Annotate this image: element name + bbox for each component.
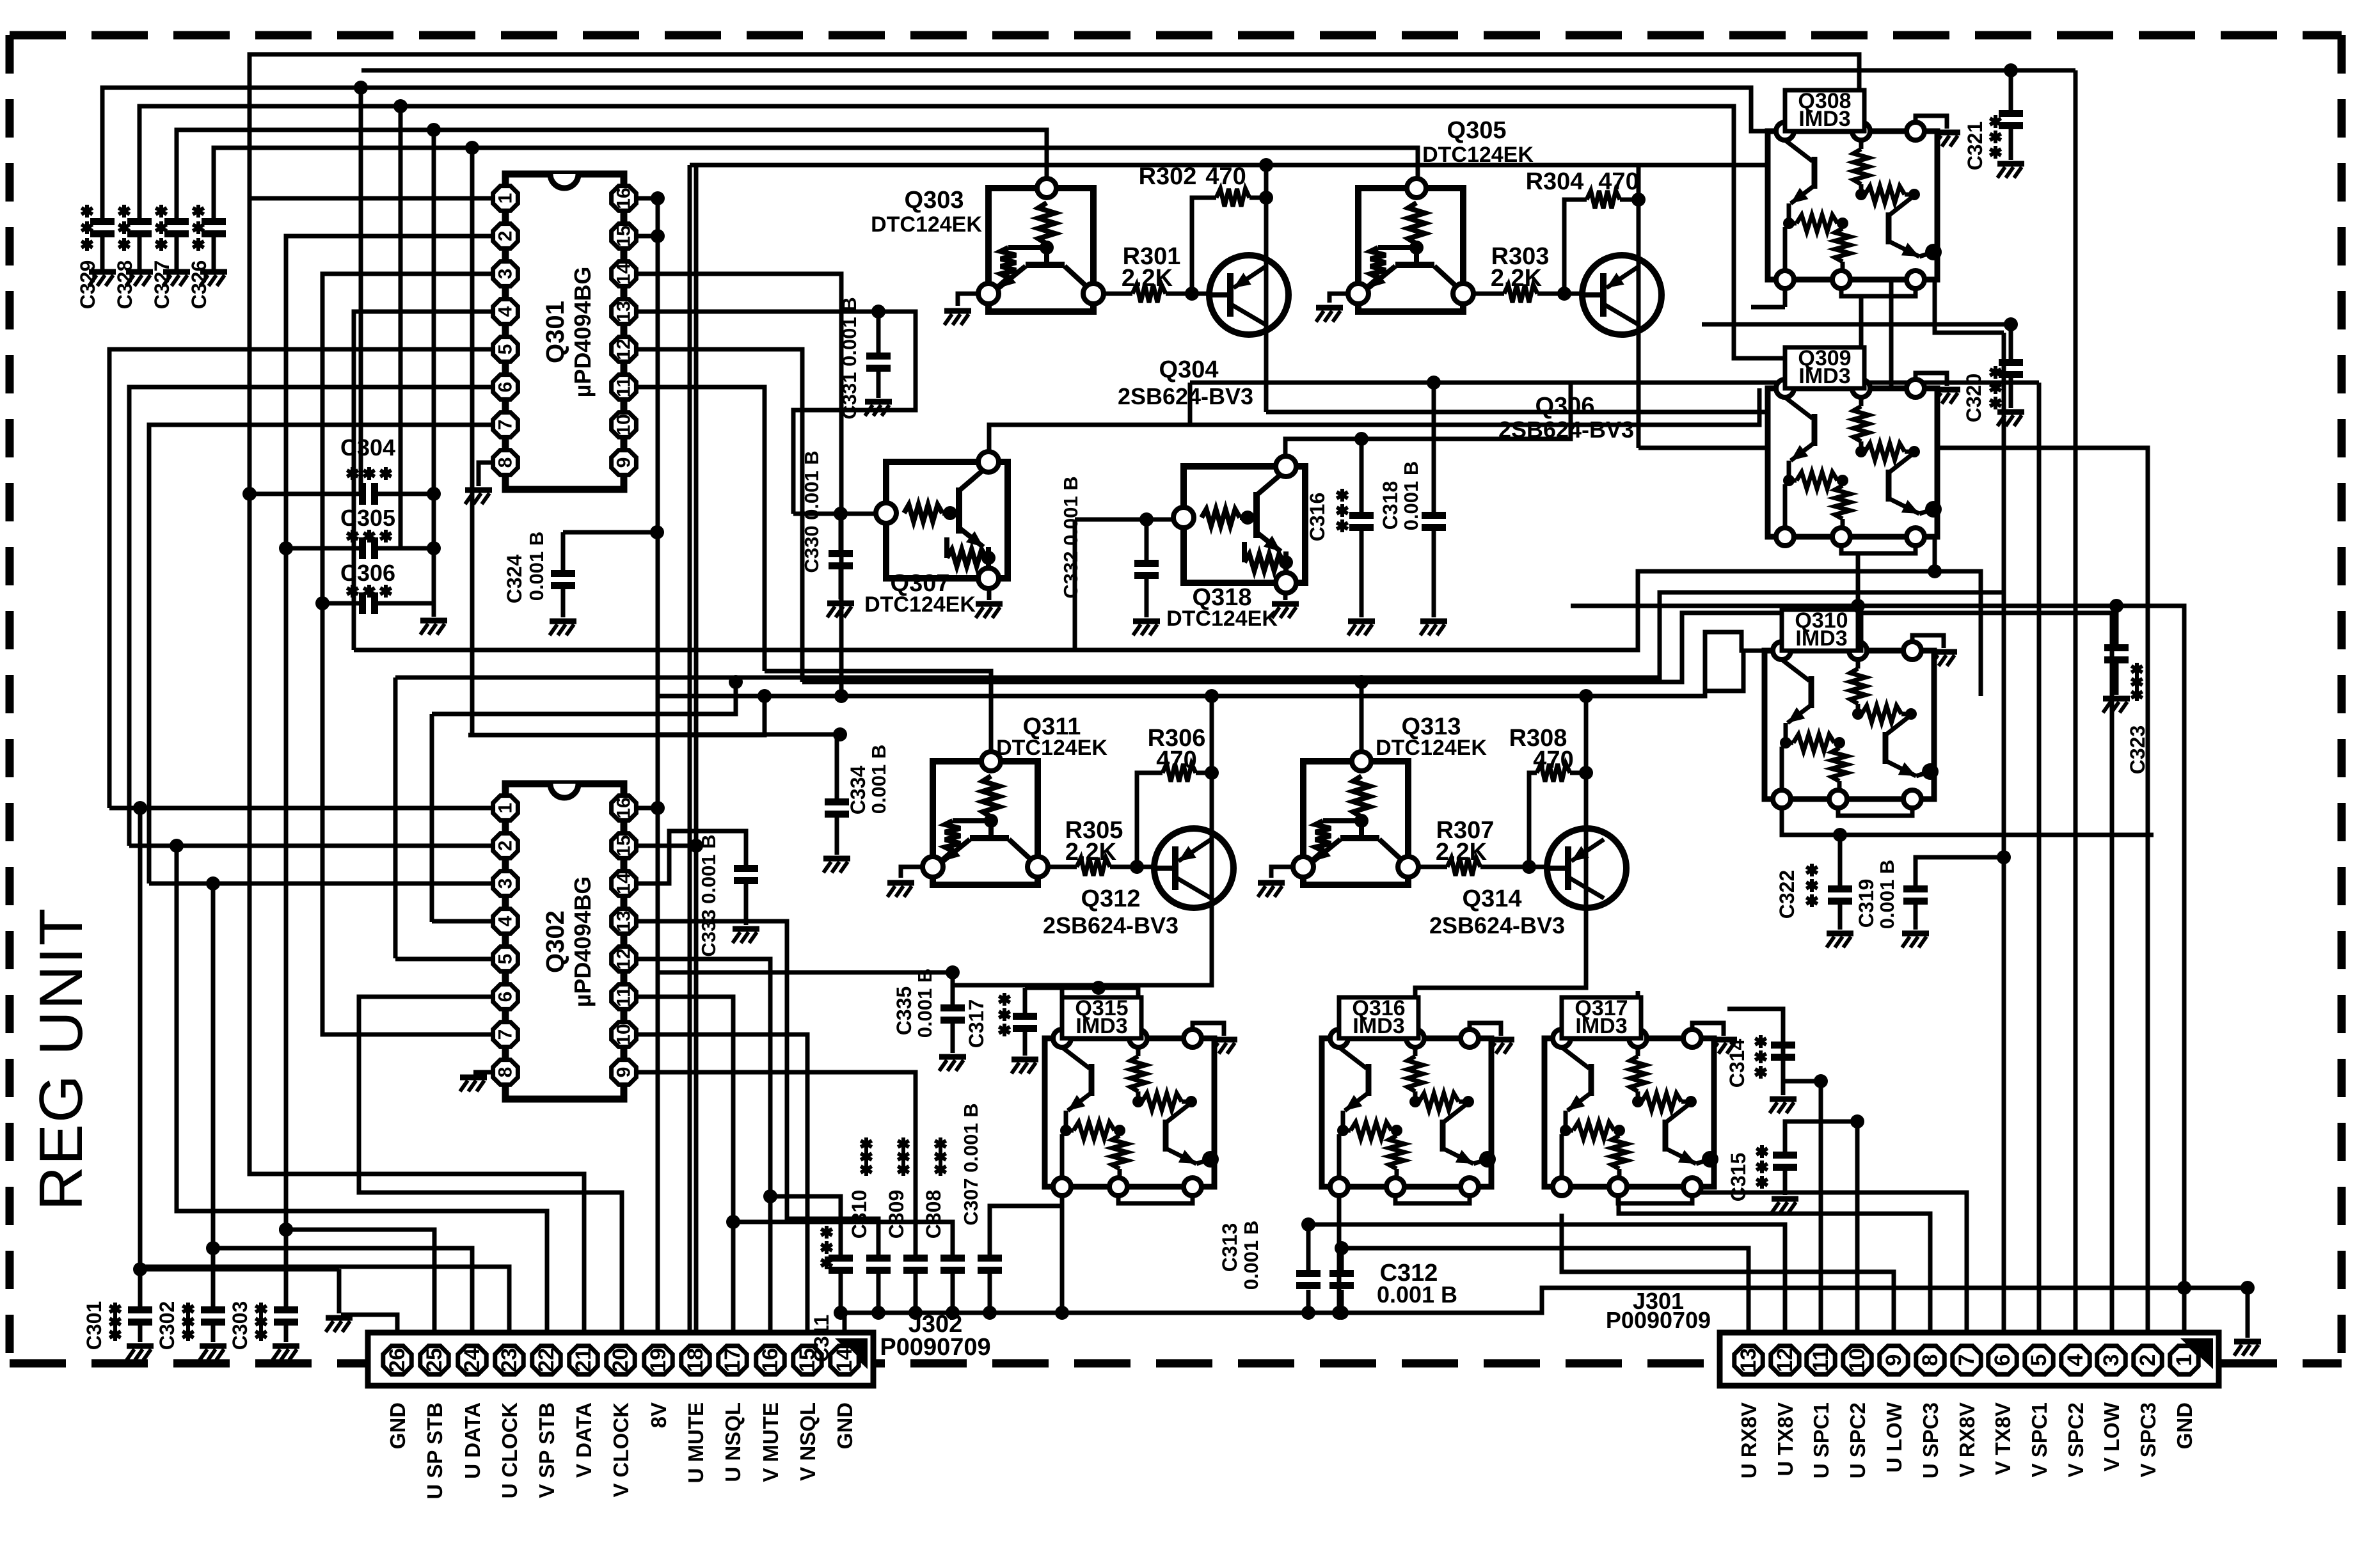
ground Q311 emitter	[887, 883, 914, 897]
pin 22 J302	[532, 1346, 560, 1374]
junction C312 bottom	[1335, 1306, 1349, 1320]
svg-text:V SPC3: V SPC3	[2136, 1402, 2160, 1477]
svg-text:12: 12	[614, 338, 635, 360]
label Q303	[871, 187, 982, 237]
capacitor C335	[940, 1004, 965, 1024]
wire C322 lead	[1838, 835, 1843, 885]
wire Q301 pin3 left column x=504	[322, 274, 492, 603]
svg-text:U CLOCK: U CLOCK	[498, 1402, 521, 1498]
label R308	[1509, 725, 1574, 773]
wire C318 column	[1432, 383, 1436, 512]
wire x=738 down to bus	[470, 148, 475, 735]
svg-text:C333 0.001 B: C333 0.001 B	[697, 834, 720, 956]
svg-text:C311: C311	[810, 1315, 833, 1363]
junction C303 top	[279, 1223, 293, 1237]
svg-text:V MUTE: V MUTE	[759, 1402, 782, 1482]
svg-text:C320: C320	[1962, 374, 1985, 423]
junction R306 column top	[1205, 689, 1219, 703]
svg-text:3: 3	[2099, 1354, 2123, 1367]
wire Q306 top link	[1637, 165, 1641, 200]
svg-text:14: 14	[614, 873, 635, 894]
svg-text:11: 11	[614, 377, 635, 397]
junction C330 top	[834, 507, 848, 521]
wire R304 right leg	[1620, 198, 1638, 202]
wire R305 to Q312	[1110, 865, 1155, 869]
junction C322 top	[1833, 828, 1847, 842]
junction C334 top	[833, 727, 847, 741]
svg-text:24: 24	[460, 1348, 484, 1372]
junction bus C x=678	[427, 123, 441, 137]
svg-text:V SPC2: V SPC2	[2064, 1402, 2088, 1477]
junction C304 right	[427, 487, 441, 501]
wire column x=1078	[688, 165, 692, 1333]
wire top bus B y=165	[139, 106, 1785, 388]
svg-text:470: 470	[1598, 168, 1638, 195]
svg-text:1: 1	[495, 803, 516, 814]
wire R302 right leg	[1249, 196, 1266, 200]
svg-text:C327: C327	[150, 260, 173, 310]
junction R308 right	[1579, 766, 1593, 780]
svg-text:18: 18	[683, 1348, 708, 1372]
ground C327	[163, 272, 190, 286]
wire Q301 pin5 long left x=171	[109, 349, 492, 808]
wire Q305 emitter ground stub	[1329, 294, 1350, 303]
capacitor C332	[1145, 519, 1149, 560]
pin 19 J302	[644, 1346, 672, 1374]
svg-text:DTC124EK: DTC124EK	[996, 736, 1107, 760]
pin 14 J302	[830, 1346, 859, 1374]
svg-text:2.2K: 2.2K	[1122, 265, 1173, 292]
svg-text:2SB624-BV3: 2SB624-BV3	[1498, 416, 1634, 443]
svg-text:U SP STB: U SP STB	[423, 1402, 447, 1500]
wire mid bus 2 y=1059	[393, 677, 398, 958]
capacitor C312	[1329, 1270, 1354, 1289]
wire C316 lead	[1360, 439, 1364, 512]
svg-text:C307 0.001 B: C307 0.001 B	[960, 1103, 982, 1225]
svg-text:6: 6	[495, 992, 516, 1002]
wire C334 top	[659, 734, 837, 798]
svg-text:IMD3: IMD3	[1075, 1014, 1127, 1038]
svg-text:IMD3: IMD3	[1798, 107, 1850, 131]
wire Q309 to Q310 link	[1856, 553, 1860, 651]
junction R308 top	[1579, 689, 1593, 703]
svg-text:0.001 B: 0.001 B	[1400, 461, 1422, 531]
svg-text:V SPC1: V SPC1	[2027, 1402, 2051, 1477]
svg-text:2: 2	[2136, 1354, 2160, 1367]
wire Q313 emitter ground stub	[1271, 867, 1294, 878]
junction C306 left	[315, 596, 329, 610]
junction pin1/col219	[133, 801, 147, 815]
svg-text:DTC124EK: DTC124EK	[871, 212, 982, 237]
wire Q309 right output down	[1933, 537, 1937, 571]
svg-text:0.001 B: 0.001 B	[1377, 1281, 1457, 1308]
svg-text:V LOW: V LOW	[2100, 1402, 2123, 1471]
wire J301 p1 to ground	[2182, 1288, 2187, 1333]
junction C305 left	[279, 541, 293, 555]
svg-text:U TX8V: U TX8V	[1773, 1402, 1797, 1477]
svg-text:10: 10	[614, 1024, 635, 1045]
svg-text:9: 9	[614, 457, 635, 468]
wire Q301 pin1 left column x=390	[250, 198, 584, 1333]
label Q304	[1118, 356, 1253, 409]
svg-text:C306: C306	[340, 560, 395, 586]
capacitor C310	[866, 1255, 891, 1274]
junction Q309 out	[1928, 564, 1942, 578]
wire Q314 vertical x=2479	[1584, 696, 1589, 972]
pin 1 J301	[2170, 1346, 2198, 1374]
wire Q302 pin6 staircase	[359, 997, 622, 1333]
wire Q302 pin1 to C301 column	[109, 806, 492, 811]
pin 15 J302	[793, 1346, 821, 1374]
wire Q302 pin7	[322, 603, 492, 1034]
svg-text:2SB624-BV3: 2SB624-BV3	[1043, 912, 1178, 939]
wire mid bus 3 y=1116	[430, 714, 434, 922]
svg-text:1: 1	[2172, 1354, 2196, 1367]
svg-text:15: 15	[614, 225, 635, 246]
transistor Q304 2SB624-BV3 (PNP)	[1209, 255, 1289, 335]
ground C324	[550, 621, 576, 635]
svg-text:14: 14	[614, 263, 635, 285]
svg-text:U SPC3: U SPC3	[1919, 1402, 1942, 1478]
svg-text:2: 2	[495, 841, 516, 852]
pin 10 J301	[1843, 1346, 1871, 1374]
svg-text:C323: C323	[2126, 725, 2149, 775]
label R301	[1122, 243, 1181, 292]
wire Q302 pin13 to C310	[637, 921, 878, 1255]
junction C315 node	[1850, 1114, 1864, 1129]
junction C317 top	[1091, 981, 1106, 995]
ground C317	[1011, 1059, 1038, 1074]
wire C317 lead	[1023, 988, 1027, 1013]
wire row2 bus y=1049 to Q311 top	[765, 671, 991, 759]
wire x=626 down to C305 row	[399, 106, 403, 548]
transistor Q318 DTC124EK (digital transistor block)	[1173, 456, 1305, 593]
svg-text:8V: 8V	[647, 1402, 670, 1428]
capacitor C315	[1773, 1152, 1797, 1171]
wire Q313 collector to R307	[1416, 865, 1447, 869]
svg-text:22: 22	[534, 1348, 559, 1372]
wire C308 top	[733, 1222, 953, 1255]
junction Q306 base	[1557, 287, 1571, 301]
svg-text:C316: C316	[1306, 493, 1329, 542]
svg-text:C303: C303	[228, 1301, 251, 1351]
ground C334	[823, 859, 850, 873]
junction R302 right	[1259, 191, 1273, 205]
svg-text:8: 8	[495, 457, 516, 468]
wire row2 top bus y=1088	[659, 632, 1773, 696]
svg-text:C334: C334	[846, 766, 869, 815]
ground C318	[1420, 621, 1447, 635]
svg-text:5: 5	[2027, 1354, 2051, 1367]
svg-text:IMD3: IMD3	[1353, 1014, 1404, 1038]
wire right column x=3187	[2037, 383, 2042, 1333]
wire Q308 right output down	[1935, 280, 2004, 333]
wire C319 top	[1916, 857, 2004, 885]
wire C301 node to J302 p26 region	[140, 1267, 339, 1272]
ground Q305 emitter	[1316, 308, 1343, 322]
svg-text:C318: C318	[1379, 481, 1402, 530]
wire Q318 output up right	[1285, 383, 1571, 458]
wire Q314 down to Q316 region	[1415, 972, 1586, 1038]
transistor Q311 DTC124EK (digital transistor block)	[923, 752, 1048, 885]
ground C321	[1997, 164, 2024, 178]
wire R306 left leg	[1137, 773, 1162, 867]
junction Q312 base	[1130, 860, 1144, 874]
svg-text:C301: C301	[83, 1301, 106, 1351]
svg-text:U SPC2: U SPC2	[1846, 1402, 1869, 1478]
junction C335 top	[946, 965, 960, 979]
wire R308 left leg	[1529, 773, 1537, 867]
wire R301 to Q304	[1166, 292, 1210, 296]
wire Q306 collector run right	[1638, 448, 2148, 1333]
junction p15	[689, 839, 703, 853]
resistor R308 470	[1537, 764, 1570, 782]
svg-text:16: 16	[614, 187, 635, 209]
junction C302 top	[206, 1241, 220, 1255]
pin 26 J302	[383, 1346, 411, 1374]
capacitor C307	[978, 1255, 1002, 1274]
transistor Q312 2SB624-BV3 (PNP)	[1154, 828, 1234, 908]
svg-text:Q301: Q301	[541, 301, 569, 363]
ground C332	[1133, 621, 1160, 635]
transistor pack Q316 IMD3 (dual digital transistor)	[1322, 996, 1514, 1203]
wire C317 row	[1025, 988, 1138, 1038]
svg-text:Q304: Q304	[1159, 356, 1219, 383]
capacitor C319	[1903, 885, 1928, 905]
junction C321 column	[2004, 63, 2018, 77]
wire Q304 collector run	[1266, 410, 1891, 415]
wire Q303 emitter ground stub	[958, 294, 982, 306]
svg-text:C304: C304	[340, 434, 395, 461]
label R305	[1065, 817, 1123, 866]
svg-text:C308: C308	[922, 1190, 945, 1239]
junction C318 top	[1427, 376, 1441, 390]
capacitor C301	[128, 1306, 152, 1326]
junction C308/p17	[726, 1215, 740, 1229]
svg-text:C324: C324	[503, 555, 526, 604]
ground C320	[1997, 412, 2024, 426]
resistor R301 2.2K	[1132, 285, 1166, 303]
svg-text:C331 0.001 B: C331 0.001 B	[838, 297, 861, 419]
svg-text:470: 470	[1205, 163, 1246, 190]
pin 20 J302	[607, 1346, 635, 1374]
junction C311 bottom	[834, 1306, 848, 1320]
wire Q301 pin16 stub	[637, 196, 658, 201]
resistor R306 470	[1162, 764, 1196, 782]
svg-text:470: 470	[1156, 747, 1196, 773]
wire Q301 pin12 right	[637, 349, 802, 682]
junction C323 top	[2109, 599, 2123, 613]
wire Q302 pin11 to J302 p17	[637, 997, 733, 1333]
wire C312 top	[1340, 1248, 1344, 1270]
pin 25 J302	[420, 1346, 448, 1374]
label Q305	[1422, 117, 1534, 167]
wire Q302 pin2 staircase	[129, 844, 492, 848]
svg-text:C322: C322	[1775, 870, 1798, 919]
svg-text:GND: GND	[2173, 1402, 2196, 1449]
wire row2 collector run y=1520	[953, 972, 1212, 985]
svg-text:8: 8	[1918, 1354, 1942, 1367]
wire C314 top link to J301 p11	[1783, 1042, 1821, 1333]
svg-text:C314: C314	[1725, 1039, 1749, 1088]
svg-text:µPD4094BG: µPD4094BG	[569, 876, 596, 1008]
ground C314	[1770, 1099, 1797, 1113]
wire C302 node to J302 p24	[213, 1248, 472, 1333]
wire C306 row	[322, 601, 434, 606]
capacitor C327	[175, 237, 179, 269]
svg-text:Q314: Q314	[1463, 885, 1522, 912]
capacitor C311	[829, 1255, 853, 1274]
capacitor C333	[734, 865, 758, 884]
label Q314	[1429, 885, 1565, 939]
ground Q313 emitter	[1258, 883, 1285, 897]
pin 8 J301	[1916, 1346, 1944, 1374]
junction C309 bottom	[908, 1306, 923, 1320]
transistor Q307 DTC124EK (digital transistor block)	[876, 452, 1008, 589]
wire x=678 down to C306 row	[432, 130, 436, 608]
ground Q303 emitter	[944, 311, 971, 325]
junction C308 bottom	[946, 1306, 960, 1320]
wire C311 top	[770, 1196, 841, 1255]
wire Q302 pin4	[432, 919, 492, 924]
wire Q310 mid-top feed	[1856, 606, 1860, 651]
transistor pack Q315 IMD3 (dual digital transistor)	[1045, 996, 1237, 1203]
svg-text:U DATA: U DATA	[461, 1402, 484, 1479]
svg-text:V DATA: V DATA	[572, 1402, 596, 1478]
ground C335	[939, 1057, 966, 1071]
pin 12 J301	[1771, 1346, 1799, 1374]
pin 5 J301	[2025, 1346, 2053, 1374]
ground C306 row	[420, 621, 447, 635]
ground C329	[89, 272, 116, 286]
junction C314 node	[1814, 1074, 1828, 1088]
wire Q308 under-loop drop left	[1783, 280, 1788, 307]
svg-text:C330 0.001 B: C330 0.001 B	[800, 450, 823, 573]
svg-text:25: 25	[422, 1348, 447, 1372]
svg-text:C321: C321	[1963, 122, 1987, 171]
wire C306 to ground	[432, 603, 436, 617]
svg-text:C335: C335	[892, 986, 916, 1036]
junction C332 top	[1139, 512, 1154, 527]
junction bus B x=626	[393, 99, 408, 113]
wire Q305 collector to R303	[1472, 292, 1504, 296]
wire R306 right leg	[1196, 771, 1212, 775]
svg-text:C332 0.001 B: C332 0.001 B	[1059, 476, 1082, 598]
junction C310 bottom	[871, 1306, 885, 1320]
wire Q304 vertical x=1979	[1264, 165, 1269, 412]
svg-text:V NSQL: V NSQL	[796, 1402, 820, 1481]
svg-text:GND: GND	[386, 1402, 409, 1449]
wire J301 p8 to Q317 mid	[1619, 1187, 1930, 1333]
ground C303	[273, 1346, 299, 1360]
resistor R304 470	[1587, 191, 1620, 209]
wire bottom bus y=2052	[841, 1288, 2248, 1313]
svg-text:Q306: Q306	[1535, 393, 1595, 420]
wire Q303 collector to R301	[1101, 292, 1132, 296]
pin 16 J302	[756, 1346, 784, 1374]
svg-text:12: 12	[1773, 1348, 1797, 1372]
ground C316	[1348, 621, 1375, 635]
svg-text:Q303: Q303	[905, 187, 964, 214]
wire C313 top	[1306, 1224, 1311, 1270]
junction Q315 drop	[1055, 1306, 1069, 1320]
label R304	[1526, 168, 1639, 195]
wire Q309 input link	[1785, 358, 1793, 388]
svg-text:11: 11	[614, 986, 635, 1007]
svg-text:1: 1	[495, 193, 516, 204]
junction C301 top	[133, 1262, 147, 1276]
svg-text:12: 12	[614, 948, 635, 969]
wire Q301 pin2 left column x=447	[286, 236, 492, 1333]
wire Q301 pin11 right	[637, 387, 765, 671]
svg-text:C319: C319	[1855, 879, 1878, 928]
wire C304 row	[250, 492, 434, 496]
pin 24 J302	[458, 1346, 486, 1374]
wire C303 column to pin22	[284, 1230, 289, 1306]
wire R308 right leg	[1570, 771, 1586, 775]
svg-text:U MUTE: U MUTE	[684, 1402, 708, 1484]
wire y=1914 to J301 p12	[1308, 1224, 1785, 1333]
svg-text:5: 5	[495, 954, 516, 965]
wire Q302 pin9 to C309	[637, 1072, 916, 1255]
capacitor C303	[274, 1306, 298, 1326]
wire C332 input row	[1075, 518, 1187, 522]
wire J302 p14 to bus	[843, 1313, 847, 1333]
capacitor C306	[359, 592, 378, 614]
junction R302 column	[1259, 158, 1273, 172]
capacitor C326	[212, 237, 216, 269]
ground C330	[827, 603, 854, 617]
capacitor C302	[201, 1306, 225, 1326]
wire Q307 bottom ground lead	[987, 578, 992, 600]
label R307	[1436, 817, 1495, 866]
svg-text:21: 21	[571, 1348, 596, 1372]
svg-text:C313: C313	[1218, 1223, 1241, 1272]
pin 3 J301	[2097, 1346, 2125, 1374]
svg-text:2.2K: 2.2K	[1065, 839, 1117, 866]
wire top bus F (y=85) to Q308	[250, 54, 1859, 198]
wire C307 top to Q315	[990, 1187, 1062, 1255]
wire Q312 vertical x=1894	[1210, 696, 1214, 972]
svg-text:3: 3	[495, 269, 516, 280]
svg-text:C329: C329	[76, 260, 99, 310]
svg-text:0.001 B: 0.001 B	[1876, 860, 1898, 930]
resistor R303 2.2K	[1504, 285, 1537, 303]
label R303	[1491, 243, 1550, 292]
junction pin16	[651, 191, 665, 205]
junction C313 node	[1301, 1217, 1315, 1232]
capacitor C314	[1727, 1009, 1783, 1042]
wire C301 node to J302 p23	[140, 1267, 509, 1333]
wire top bus C y=206	[177, 130, 1047, 218]
wire Q307 output up and right	[989, 388, 1759, 457]
connector J301 P0090709	[1720, 1333, 2219, 1386]
svg-text:2SB624-BV3: 2SB624-BV3	[1118, 383, 1253, 409]
svg-text:C302: C302	[155, 1301, 178, 1351]
wire C332 left elbow down	[1073, 519, 1077, 650]
svg-text:C315: C315	[1727, 1153, 1750, 1202]
wire C307..C311 bottom leads	[839, 1273, 843, 1313]
wire R302 left leg	[1192, 198, 1216, 294]
wire C330 node row	[793, 512, 890, 516]
wire Q302 pin14 to C333	[637, 831, 746, 883]
label Q313	[1376, 713, 1487, 760]
ground C322	[1827, 933, 1853, 947]
junction p1 node	[2177, 1281, 2191, 1295]
pin 13 J301	[1734, 1346, 1763, 1374]
junction C305 right	[427, 541, 441, 555]
wire Q301 pin15 stub	[637, 234, 658, 239]
